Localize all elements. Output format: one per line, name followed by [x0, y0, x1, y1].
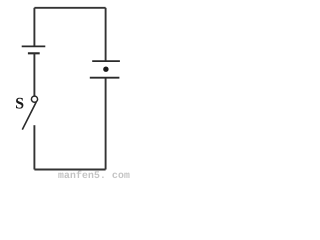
- capacitor C1 top plate: [92, 60, 120, 62]
- switch S contact circle: [31, 96, 37, 102]
- battery B1 positive plate (long): [22, 45, 46, 47]
- charged particle (dot) between capacitor plates: [103, 67, 108, 72]
- wire left middle (battery negative plate to switch contact): [33, 53, 35, 96]
- switch S blade (open): [22, 102, 36, 130]
- wire left lower (switch to bottom corner): [33, 125, 35, 169]
- label S: [16, 98, 23, 109]
- battery B1 negative plate (short): [28, 52, 40, 54]
- wire right lower (bottom corner to capacitor bottom plate): [105, 78, 107, 170]
- wire right upper (capacitor top plate to top corner): [105, 8, 107, 61]
- wire left upper (top corner to battery positive plate): [33, 8, 35, 47]
- watermark manfen5.com: [58, 171, 129, 179]
- wire bottom: [34, 169, 105, 171]
- capacitor C1 bottom plate: [90, 77, 120, 79]
- wire top (battery to capacitor): [34, 7, 105, 9]
